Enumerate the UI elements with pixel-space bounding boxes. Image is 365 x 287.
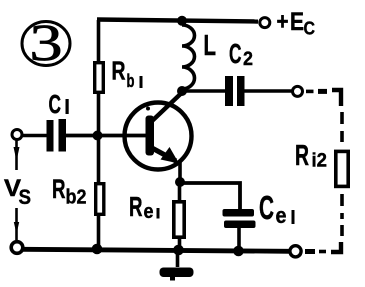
svg-text:C: C bbox=[229, 38, 242, 69]
junction Rb2 bottom bbox=[92, 244, 103, 255]
junction top rail to L bbox=[177, 16, 187, 26]
wire emitter node to Ce1 bbox=[182, 183, 240, 210]
junction ground node bbox=[173, 245, 184, 256]
svg-text:L: L bbox=[204, 30, 217, 62]
wire Ce1 to bottom rail bbox=[237, 228, 241, 250]
source Vs branch wire with arrow bbox=[14, 140, 20, 240]
svg-text:R: R bbox=[295, 140, 309, 172]
wire bottom rail bbox=[23, 249, 290, 251]
wire base node to transistor base bbox=[98, 134, 146, 138]
resistor Re1 bbox=[174, 202, 184, 237]
junction emitter node bbox=[175, 177, 185, 187]
junction collector node bbox=[177, 86, 187, 96]
svg-text:C: C bbox=[49, 89, 62, 119]
svg-text:i2: i2 bbox=[312, 150, 328, 172]
svg-text:E: E bbox=[290, 8, 304, 36]
wire emitter to emitter node bbox=[178, 162, 182, 183]
terminal +Ec bbox=[260, 18, 270, 28]
resistor Ri2 bbox=[336, 151, 348, 186]
capacitor C1 bbox=[47, 119, 67, 152]
svg-text:b2: b2 bbox=[66, 187, 87, 209]
dashed wire output terminal to Ri2 top bbox=[306, 90, 342, 142]
wire emitter node to Re1 bbox=[178, 186, 182, 200]
label circled 3 bbox=[22, 14, 70, 71]
svg-text:+: + bbox=[277, 9, 289, 36]
svg-text:e: e bbox=[144, 201, 154, 223]
wire collector node to C2 bbox=[182, 89, 226, 93]
svg-text:R: R bbox=[52, 174, 66, 204]
wire base node up to Rb1 bbox=[97, 94, 101, 133]
resistor Rb1 bbox=[95, 63, 104, 93]
transistor Q1 bbox=[125, 94, 192, 170]
wire C1 to base node bbox=[66, 134, 98, 138]
terminal output bottom bbox=[290, 246, 301, 257]
svg-text:b: b bbox=[127, 71, 135, 91]
svg-text:C: C bbox=[304, 19, 316, 39]
wire C2 to output terminal bbox=[244, 89, 292, 92]
wire Rb1 to top rail bbox=[97, 20, 101, 61]
junction base node bbox=[93, 131, 103, 141]
resistor Rb2 bbox=[96, 184, 104, 215]
junction Ce1 bottom bbox=[233, 246, 244, 257]
terminal bottom-left bbox=[11, 242, 23, 254]
wire top rail bbox=[97, 20, 258, 22]
wire Re1 to bottom rail bbox=[178, 239, 182, 250]
capacitor C2 bbox=[225, 76, 245, 106]
wire Rb2 to bottom rail bbox=[97, 216, 101, 250]
svg-text:2: 2 bbox=[243, 48, 253, 70]
dashed wire Ri2 to output bottom bbox=[305, 194, 342, 252]
svg-text:e: e bbox=[276, 203, 287, 228]
svg-text:3: 3 bbox=[29, 14, 62, 71]
svg-text:C: C bbox=[259, 189, 274, 226]
svg-text:S: S bbox=[19, 186, 32, 209]
wire input to C1 bbox=[23, 134, 48, 138]
capacitor Ce1 bbox=[223, 209, 256, 228]
svg-text:R: R bbox=[129, 191, 143, 222]
svg-text:R: R bbox=[112, 56, 126, 86]
terminal input top-left bbox=[12, 130, 22, 140]
inductor L bbox=[182, 25, 195, 89]
ground bbox=[160, 252, 194, 281]
wire base node down to Rb2 bbox=[97, 138, 101, 182]
terminal output top bbox=[293, 86, 303, 96]
